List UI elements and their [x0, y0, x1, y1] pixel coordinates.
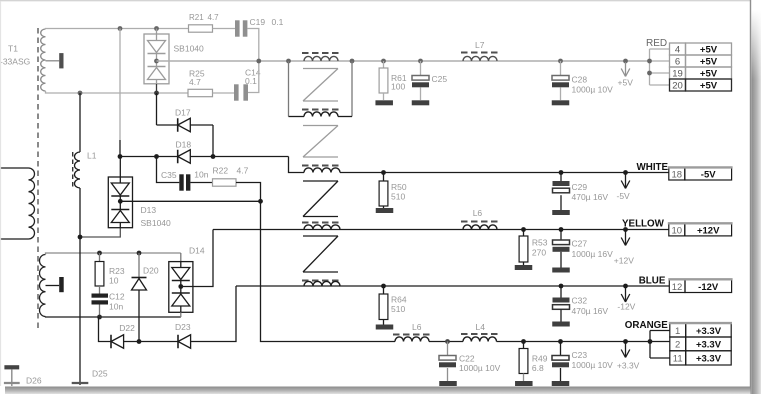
capacitor C25: [420, 61, 422, 76]
junction C32: [559, 284, 564, 289]
transformer T1 primary winding: [29, 168, 35, 239]
svg-text:D22: D22: [119, 323, 135, 333]
ground (R49): [515, 381, 533, 386]
svg-text:270: 270: [532, 248, 546, 258]
svg-text:100: 100: [391, 82, 405, 92]
svg-text:6.8: 6.8: [532, 363, 544, 373]
ground (C23): [552, 381, 570, 386]
wire +3.3V feed down: [261, 201, 396, 341]
ground (C28): [552, 100, 570, 105]
core symbol Z2: [303, 125, 338, 127]
svg-text:R23: R23: [109, 266, 125, 276]
choke winding W1 (+5V): [302, 52, 340, 54]
svg-text:+3.3V: +3.3V: [696, 340, 722, 351]
junction L1 / D25 line: [78, 235, 83, 240]
junction D13 cathode node: [118, 199, 123, 204]
svg-text:10n: 10n: [194, 170, 208, 180]
svg-text:+3.3V: +3.3V: [696, 353, 722, 364]
junction -5V feed / rail: [118, 154, 123, 159]
svg-text:4.7: 4.7: [237, 166, 249, 176]
junction +12V arrow: [623, 227, 628, 232]
svg-text:4.7: 4.7: [189, 77, 201, 87]
svg-text:-5V: -5V: [701, 170, 716, 181]
capacitor C23: [560, 342, 562, 356]
svg-text:R21: R21: [189, 13, 204, 22]
resistor R21: [189, 25, 213, 32]
wire +12V to connector: [650, 229, 669, 231]
svg-text:D26: D26: [26, 375, 42, 385]
svg-text:+5V: +5V: [618, 78, 634, 88]
junction -5V arrow: [623, 170, 628, 175]
svg-text:WHITE: WHITE: [637, 162, 669, 173]
ground (C27): [552, 268, 570, 273]
svg-text:470µ 16V: 470µ 16V: [572, 192, 609, 202]
svg-text:1000µ 10V: 1000µ 10V: [459, 363, 501, 373]
svg-text:10: 10: [672, 225, 683, 236]
connector table WHITE -5V: [669, 168, 685, 180]
resistor R23: [99, 253, 101, 262]
capacitor C27: [560, 230, 562, 241]
svg-text:C28: C28: [572, 75, 588, 85]
svg-text:L6: L6: [473, 208, 483, 218]
svg-text:D18: D18: [176, 140, 192, 150]
junction R49: [521, 339, 526, 344]
dual Schottky diode SB1040 (top rectifier): [156, 29, 158, 35]
svg-text:C23: C23: [572, 350, 588, 360]
power arrow +5V: [625, 62, 627, 76]
svg-text:D25: D25: [92, 368, 108, 378]
diode D20: [138, 253, 140, 278]
junction +3.3V arrow: [623, 339, 628, 344]
junction D18 anode-side / C35: [154, 154, 159, 159]
junction D13 output / R22: [258, 199, 263, 204]
svg-text:L7: L7: [475, 40, 485, 50]
diode D17: [177, 118, 179, 132]
svg-text:T1: T1: [8, 44, 18, 54]
core symbol Z3: [303, 180, 338, 182]
junction C12 bottom: [97, 315, 102, 320]
svg-text:6: 6: [675, 57, 680, 68]
resistor R22: [213, 179, 237, 186]
svg-text:C22: C22: [459, 354, 475, 364]
svg-text:10: 10: [109, 276, 119, 286]
svg-text:4.7: 4.7: [208, 13, 220, 22]
resistor R61: [383, 61, 385, 68]
power arrow +12V: [625, 231, 627, 245]
svg-text:D17: D17: [175, 108, 191, 118]
connector table BLUE -12V: [669, 280, 685, 293]
choke winding W4 (-12V): [302, 280, 340, 282]
junction D14 cathode node: [178, 284, 183, 289]
wire C35 to R22: [190, 182, 212, 184]
page left edge: [0, 1, 2, 386]
wire W2 left step: [289, 157, 305, 173]
capacitor C12: [99, 286, 101, 294]
svg-text:+12V: +12V: [614, 256, 634, 266]
connector table ORANGE +3.3V: [670, 323, 686, 337]
power arrow -5V: [625, 174, 627, 188]
svg-text:+5V: +5V: [700, 45, 718, 56]
svg-text:SB1040: SB1040: [174, 44, 205, 54]
resistor R50: [383, 173, 385, 182]
svg-text:10n: 10n: [109, 302, 123, 312]
transformer T1 secondary winding (top): [41, 29, 46, 91]
svg-text:470µ 16V: 470µ 16V: [572, 306, 609, 316]
svg-text:11: 11: [673, 353, 683, 364]
wire -12V rail: [236, 285, 650, 287]
capacitor C22: [447, 342, 449, 356]
svg-text:C25: C25: [432, 74, 448, 84]
svg-text:510: 510: [391, 304, 405, 314]
wire D14 anode to bottom rail: [180, 312, 182, 317]
capacitor C29: [560, 173, 562, 182]
junction D20 top: [137, 251, 142, 256]
center tap wire (bottom winding): [46, 285, 60, 287]
wire +12V rail: [213, 229, 650, 231]
svg-text:+5V: +5V: [700, 81, 718, 92]
capacitor C14: [234, 84, 239, 100]
wire to C35: [157, 157, 180, 183]
capacitor C35: [179, 174, 183, 190]
svg-text:-33ASG: -33ASG: [0, 57, 30, 67]
choke W1 left side wire: [288, 61, 290, 117]
junction R23 top: [97, 251, 102, 256]
svg-text:+5V: +5V: [700, 57, 718, 68]
wire +5V rail: [157, 60, 650, 62]
junction connector branch row19: [647, 71, 652, 76]
wire D13 output: [120, 200, 260, 202]
junction top rail / D11 node: [154, 26, 159, 31]
capacitor C28: [560, 61, 562, 76]
wire C14 to +5V rail: [248, 61, 259, 93]
wire -5V rail: [340, 172, 650, 174]
core symbol Z4: [303, 235, 338, 237]
diode D23: [177, 335, 179, 349]
ground (R61): [375, 100, 393, 105]
svg-text:+3.3V: +3.3V: [617, 361, 640, 371]
junction R61: [381, 59, 386, 64]
wire R21 to C19: [213, 28, 236, 30]
junction SB1040 cathode node: [154, 59, 159, 64]
ground (C32): [552, 322, 570, 327]
junction D20 / D22-D23: [137, 339, 142, 344]
svg-text:1000µ 10V: 1000µ 10V: [572, 85, 614, 95]
junction R50: [381, 170, 386, 175]
svg-text:0.1: 0.1: [245, 76, 257, 86]
resistor R25: [188, 89, 213, 96]
svg-text:4: 4: [675, 45, 680, 56]
junction C23: [558, 339, 563, 344]
wire SB1040 anode to bottom rail: [156, 84, 158, 93]
svg-text:R22: R22: [213, 166, 229, 176]
svg-text:+3.3V: +3.3V: [696, 326, 722, 337]
svg-text:D23: D23: [175, 322, 191, 332]
wire -5V feed from top rail: [119, 29, 121, 141]
junction +5V arrow: [623, 59, 628, 64]
resistor R53: [523, 230, 525, 237]
junction snubber node: [256, 59, 261, 64]
junction C27: [559, 227, 564, 232]
wire +5V connector branch: [649, 49, 651, 85]
junction bottom rail / L1: [78, 91, 83, 96]
svg-text:C12: C12: [109, 292, 125, 302]
svg-text:C19: C19: [250, 17, 266, 27]
transformer T1 core: [37, 28, 39, 331]
power arrow -12V: [625, 288, 627, 302]
ground (R64): [376, 325, 394, 330]
wire L6 to L4: [429, 341, 463, 343]
svg-text:R50: R50: [391, 182, 407, 192]
junction R64: [381, 284, 386, 289]
ground (R53): [515, 265, 533, 270]
svg-text:C29: C29: [572, 182, 588, 192]
wire primary top lead: [0, 167, 29, 169]
svg-text:BLUE: BLUE: [639, 276, 666, 287]
core symbol Z1: [303, 68, 338, 70]
svg-text:C35: C35: [161, 170, 177, 180]
junction R53: [521, 227, 526, 232]
wire R25 to C14: [213, 92, 235, 94]
svg-text:R64: R64: [391, 295, 407, 305]
wire D23 to -12V rail: [191, 286, 236, 342]
wire -12V to connector: [650, 285, 670, 287]
resistor R49: [523, 342, 525, 349]
svg-text:12: 12: [672, 282, 683, 293]
junction choke right: [350, 59, 355, 64]
window right border: [750, 0, 752, 394]
choke winding W3 (+12V): [302, 222, 340, 224]
svg-text:20: 20: [672, 81, 683, 92]
svg-text:R49: R49: [532, 354, 548, 364]
wire to D22: [99, 317, 112, 342]
dual Schottky diode D14 (+12V rectifier): [180, 253, 182, 262]
svg-text:YELLOW: YELLOW: [622, 219, 665, 230]
svg-text:1000µ 10V: 1000µ 10V: [572, 360, 614, 370]
junction C28: [558, 59, 563, 64]
svg-text:-12V: -12V: [698, 282, 719, 293]
inductor L6 (+3.3V): [393, 334, 431, 336]
ground (C29): [552, 210, 570, 215]
wire +3.3V connector branch: [649, 331, 651, 359]
junction C25: [418, 59, 423, 64]
diode D22: [110, 335, 112, 349]
svg-text:18: 18: [672, 170, 683, 181]
svg-text:D20: D20: [143, 266, 159, 276]
choke W1 right side wire: [351, 61, 353, 117]
page top edge: [0, 0, 750, 2]
wire L1 to D13 anode: [80, 228, 120, 237]
ground (C25): [412, 100, 430, 105]
inductor L7: [461, 52, 499, 54]
dual Schottky diode D13 SB1040 (+3.3V rectifier): [119, 157, 121, 178]
svg-text:L1: L1: [87, 151, 97, 161]
svg-text:510: 510: [391, 192, 405, 202]
junction choke left: [286, 59, 291, 64]
choke winding W1b: [302, 109, 340, 111]
wire primary bottom lead: [0, 238, 29, 240]
wire R22 to +3.3V junction: [236, 183, 261, 202]
junction +3.3V connector branch: [648, 339, 653, 344]
svg-text:+12V: +12V: [697, 225, 720, 236]
svg-text:SB1040: SB1040: [141, 218, 172, 228]
transformer T1 secondary winding (bottom): [40, 255, 46, 317]
wire D14 output to +12V rail: [181, 230, 213, 287]
wire D17 to -5V node: [212, 125, 214, 157]
svg-text:D14: D14: [189, 246, 205, 256]
junction C22: [445, 339, 450, 344]
wire top rail y=28.5: [46, 28, 189, 31]
center tap bar (bottom winding): [59, 277, 64, 292]
junction -12V arrow: [623, 284, 628, 289]
svg-text:R53: R53: [532, 238, 548, 248]
svg-text:-5V: -5V: [617, 191, 631, 201]
svg-text:L6: L6: [412, 322, 422, 332]
svg-text:0.1: 0.1: [272, 17, 284, 27]
wire -5V node rail: [120, 156, 289, 158]
svg-text:19: 19: [672, 69, 683, 80]
svg-text:D13: D13: [141, 205, 157, 215]
wire SB1040 anode to D17: [156, 93, 158, 125]
junction bottom rail / SB1040 anode / D17: [154, 91, 159, 96]
svg-text:+5V: +5V: [700, 69, 718, 80]
diode D25: [79, 237, 81, 385]
junction connector branch row6: [647, 59, 652, 64]
connector table RED +5V: [670, 43, 686, 55]
wire D22 to D23: [124, 341, 178, 343]
diode D18: [177, 150, 179, 164]
diode D26: [4, 365, 19, 369]
inductor L1 (mag-amp): [79, 93, 81, 152]
center tap wire (top winding): [46, 60, 60, 62]
power arrow +3.3V: [625, 343, 627, 357]
wire -5V to connector: [650, 172, 669, 174]
svg-text:2: 2: [675, 340, 680, 351]
wire +3.3V rail right: [497, 341, 650, 343]
svg-text:1: 1: [675, 326, 680, 337]
connector table YELLOW +12V: [669, 224, 685, 236]
svg-text:-12V: -12V: [617, 302, 635, 312]
wire lower winding top rail y=253: [46, 253, 181, 255]
svg-text:C27: C27: [572, 239, 588, 249]
wire lower winding bottom rail y=317: [46, 316, 181, 319]
junction top rail / -5V feed: [118, 26, 123, 31]
inductor L4: [461, 333, 498, 335]
svg-text:C32: C32: [572, 296, 588, 306]
ground (R50): [376, 208, 394, 213]
junction C29: [559, 170, 564, 175]
resistor R64: [383, 286, 385, 294]
wire C19 to +5V rail: [247, 29, 258, 62]
center tap bar (top winding): [59, 53, 63, 68]
choke winding W2 (-5V): [302, 165, 340, 167]
ground (C22): [439, 381, 457, 386]
capacitor C32: [560, 286, 562, 298]
svg-text:ORANGE: ORANGE: [625, 320, 668, 331]
svg-text:1000µ 16V: 1000µ 16V: [572, 249, 614, 259]
capacitor C19: [235, 20, 240, 36]
svg-text:L4: L4: [476, 322, 486, 332]
svg-text:RED: RED: [646, 38, 667, 49]
wire bottom rail y=93: [46, 91, 189, 93]
junction D17/D18 cathode node: [211, 154, 216, 159]
inductor L6 (+12V): [461, 221, 499, 223]
